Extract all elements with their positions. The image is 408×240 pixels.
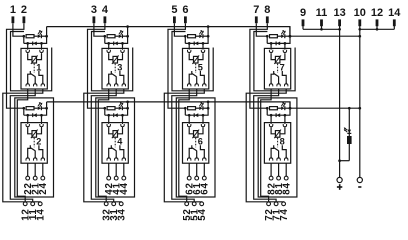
wire coil leads K4 [109,128,123,134]
relay K3 socket box [102,48,128,89]
wire K5 NO contact to terminal 54 [164,89,204,202]
LED indicator K1 [38,30,43,38]
LED indicator K4 [119,102,124,110]
resistor (K1 LED series) [26,35,34,38]
terminal circle 71 [274,202,278,206]
relay K7 socket box [264,48,290,89]
resistor (K5 LED series) [188,35,196,38]
channel K4 outline box [96,98,135,197]
svg-text:2: 2 [21,4,27,16]
junction minus rail top row [358,35,361,38]
channel K6 outline box [176,98,215,197]
junction coil A1 K3 [107,42,110,45]
wire K7 NO contact to terminal 74 [246,89,286,202]
junction coil A1 K8 [270,114,273,117]
svg-text:12: 12 [371,7,383,19]
relay K2 coil clamp A2 [41,123,43,124]
terminal circle 44 [122,176,126,180]
relay K4 coil [112,130,119,139]
relay K2 changeover contact [28,145,43,158]
resistor (K8 LED series) [270,107,278,110]
wire terminal 8 feed to K8 [250,23,267,108]
wire K1 NO contact to terminal 14 [3,89,43,202]
suppressor diode K4 [113,113,115,117]
terminal circle 24 [41,176,45,180]
junction coil A2 K8 [284,114,287,117]
junction node J8 [266,107,269,110]
relay K5 coil clamp A2 [202,48,204,49]
resistor (K6 LED series) [188,107,196,110]
wire R to LED [115,35,119,37]
terminal 11 [316,7,328,26]
terminal circle 74 [282,202,286,206]
relay K1 coil clamp A2 [41,48,43,49]
svg-text:34: 34 [117,208,128,220]
wire power indicator branch [348,108,350,161]
terminal 8 [264,4,270,23]
mechanical link K4 [114,138,116,147]
wire K3 NC contact to terminal 32 [98,89,108,202]
terminal circle 52 [185,202,189,206]
relay K4 contact clamps [107,157,126,161]
wire diode branch K6 [185,108,208,115]
junction coil A2 K1 [40,42,43,45]
wire coil leads K3 [109,54,123,60]
terminal circle 81 [277,176,281,180]
junction terminal 11 [320,28,323,31]
relay K4 changeover contact [109,145,124,158]
svg-text:11: 11 [316,7,328,19]
svg-text:14: 14 [388,7,401,19]
terminal circle 64 [202,176,206,180]
wire X5 riser to minus rail [207,27,209,37]
wire J6 down to diode branch [184,108,186,115]
wire terminal 2 feed to K2 [7,23,24,108]
wire K3 common contact to terminal 31 [91,89,116,202]
junction node J7 [266,35,269,38]
relay K7 coil [274,55,281,64]
node X7 [289,35,292,38]
junction coil A2 K4 [121,114,124,117]
mechanical link K6 [195,138,197,147]
relay K8 changeover contact [271,145,286,158]
wire K6 contacts to terminals [189,163,204,176]
suppressor diode K1 [32,42,34,46]
wire J8 down to diode branch [266,108,268,115]
wire K1 NC contact to terminal 12 [17,89,27,202]
wire terminal 5 to R input [174,23,185,36]
wire LED to node X5 [203,35,208,37]
wire terminal 10 stub [359,26,361,30]
plus test terminal [337,177,342,182]
relay K8 coil clamp A1 [270,123,272,124]
junction coil A2 K3 [121,42,124,45]
junction node J2 [22,107,25,110]
wire plus vertical to + test terminal [339,29,341,177]
junction node J1 [22,35,25,38]
wire R to LED [34,35,38,37]
wire LED to node X3 [122,35,127,37]
svg-text:6: 6 [182,4,188,16]
svg-text:9: 9 [300,7,306,19]
LED indicator K3 [119,30,124,38]
terminal circle 32 [104,202,108,206]
terminal circle 21 [33,176,37,180]
wire X6 riser to minus rail [207,102,209,108]
wire R to LED [34,107,38,109]
relay K4 coil clamp A2 [122,123,124,124]
wire terminal 1 to R input [13,23,24,36]
wire diode branch K4 [105,108,128,115]
wire J2 down to diode branch [23,108,25,115]
wire X3 riser to minus rail [127,27,129,37]
relay K3 contact clamps [107,82,126,86]
channel K5 outline [172,32,213,91]
rail junction X5 [207,25,210,28]
svg-text:24: 24 [38,182,49,194]
rail junction X6 [207,101,210,104]
relay K8 coil clamp A2 [284,123,286,124]
wire R to LED [196,107,200,109]
wire terminal 12 stub [376,26,378,30]
relay K8 socket box [264,123,290,164]
wire J7 down to diode branch [266,36,268,43]
wire K2 contacts to terminals [28,163,43,176]
svg-text:13: 13 [333,7,345,19]
resistor (power LED series) [348,137,351,144]
junction coil A2 K6 [202,114,205,117]
wire X1 riser to minus rail [46,27,48,37]
LED indicator K8 [281,102,286,110]
wire K1 common contact to terminal 11 [10,89,35,202]
wire branch to coil clamps K3 [109,43,123,48]
mechanical link K3 [114,64,116,73]
wire J5 down to diode branch [184,36,186,43]
resistor (K7 LED series) [270,35,278,38]
wire LED to node X6 [203,107,208,109]
relay K1 socket box [21,48,47,89]
node X3 [126,35,129,38]
mechanical link K5 [195,64,197,73]
junction minus rail bottom row [358,107,361,110]
wire branch to coil clamps K1 [28,43,42,48]
relay K6 contact clamps [188,157,207,161]
wire terminal 11 stub [321,26,323,30]
relay K6 coil clamp A2 [202,123,204,124]
wire branch to coil clamps K7 [271,43,285,48]
relay K3 coil clamp A2 [122,48,124,49]
suppressor diode K3 [113,42,115,46]
wire coil leads K2 [28,128,42,134]
junction coil A1 K1 [26,42,29,45]
relay K8 contact clamps [269,157,288,161]
wire LED to node X8 [285,107,290,109]
LED indicator K7 [281,30,286,38]
relay K3 coil [112,55,119,64]
suppressor diode K7 [275,42,277,46]
relay K1 changeover contact [28,71,43,84]
wire X4 riser to minus rail [127,102,129,108]
terminal circle 31 [112,202,116,206]
wire K5 NC contact to terminal 52 [179,89,189,202]
junction node J3 [103,35,106,38]
wire branch to coil clamps K4 [109,115,123,122]
wire diode branch K7 [267,36,290,43]
channel K8 outline box [258,98,297,197]
mechanical link K8 [277,138,279,147]
terminal circle 11 [31,202,35,206]
wire LED to node X4 [122,107,127,109]
wire X8 riser to minus rail [289,102,291,108]
junction terminal 13 [338,28,341,31]
svg-text:44: 44 [119,182,130,194]
terminal circle 42 [107,176,111,180]
terminal circle 41 [114,176,118,180]
wire coil leads K8 [271,128,285,134]
node X5 [207,35,210,38]
wire K7 NC contact to terminal 72 [261,89,271,202]
wire K7 common contact to terminal 71 [254,89,279,202]
junction coil A2 K2 [40,114,43,117]
relay K5 changeover contact [189,71,204,84]
rail junction X3 [126,25,129,28]
wire power branch to plus vertical [340,160,350,162]
LED indicator K5 [199,30,204,38]
junction power indicator return [338,159,341,162]
power LED indicator [344,127,352,133]
terminal 1 [10,4,16,23]
channel K2 outline box [15,98,54,197]
wire J1 down to diode branch [23,36,25,43]
wire coil leads K7 [271,54,285,60]
svg-text:14: 14 [36,208,47,220]
terminal circle 61 [195,176,199,180]
junction node J5 [184,35,187,38]
wire terminal 14 stub [393,26,395,30]
terminal circle 12 [23,202,27,206]
wire R to LED [115,107,119,109]
wire terminal 4 feed to K4 [88,23,105,108]
junction coil A1 K2 [26,114,29,117]
junction node J6 [184,107,187,110]
wire J4 down to diode branch [104,108,106,115]
svg-text:64: 64 [200,182,211,194]
relay K5 socket box [183,48,209,89]
node X6 [207,107,210,110]
wire branch to coil clamps K6 [189,115,203,122]
wire LED to node X2 [41,107,46,109]
suppressor diode K8 [275,113,277,117]
relay K1 contact clamps [26,82,45,86]
node X2 [45,107,48,110]
wire branch to coil clamps K8 [271,115,285,122]
wire terminal 13 stub [339,26,341,30]
terminal circle 62 [187,176,191,180]
terminal circle 82 [269,176,273,180]
terminal circle 84 [284,176,288,180]
relay K2 socket box [21,123,47,164]
wire J3 down to diode branch [104,36,106,43]
relay K1 coil [31,55,38,64]
rail junction X4 [126,101,129,104]
wire coil leads K6 [189,128,203,134]
LED indicator K2 [38,102,43,110]
wire diode branch K3 [105,36,128,43]
wire coil leads K1 [28,54,42,60]
suppressor diode K5 [193,42,195,46]
node X1 [45,35,48,38]
minus test terminal [357,177,362,182]
wire diode branch K2 [24,108,47,115]
wire terminal 6 feed to K6 [168,23,185,108]
terminal 10 [354,7,366,26]
channel K1 outline [11,32,52,91]
terminal circle 34 [119,202,123,206]
relay K6 socket box [183,123,209,164]
relay K7 coil clamp A2 [284,48,286,49]
svg-text:84: 84 [282,182,293,194]
wire diode branch K5 [185,36,208,43]
wire LED to node X1 [41,35,46,37]
svg-text:3: 3 [91,4,97,16]
terminal 14 [388,7,401,26]
terminal 12 [371,7,383,26]
junction coil A1 K7 [270,42,273,45]
relay K3 coil clamp A1 [108,48,110,49]
terminal 2 [21,4,27,23]
relay K5 contact clamps [188,82,207,86]
relay K7 changeover contact [271,71,286,84]
junction coil A2 K5 [202,42,205,45]
relay K8 coil [274,130,281,139]
resistor (K3 LED series) [107,35,115,38]
terminal 13 [333,7,345,26]
wire X7 riser to minus rail [289,27,291,37]
terminal 4 [102,4,109,23]
wire terminal 3 to R input [94,23,105,36]
terminal 6 [182,4,188,23]
suppressor diode K2 [32,113,34,117]
node X4 [126,107,129,110]
junction coil A1 K5 [188,42,191,45]
wire K8 contacts to terminals [271,163,286,176]
svg-text:1: 1 [10,4,16,16]
svg-text:4: 4 [102,4,109,16]
wire coil leads K5 [189,54,203,60]
label + [337,184,342,190]
wire R to LED [196,35,200,37]
minus rail extension (top row) to supply [290,35,360,37]
wire terminal 9 stub [302,26,304,30]
relay K2 contact clamps [26,157,45,161]
relay K2 coil [31,130,38,139]
resistor (K2 LED series) [26,107,34,110]
relay K4 socket box [102,123,128,164]
wire diode branch K1 [24,36,47,43]
terminal circle 22 [26,176,30,180]
wire X2 riser to minus rail [46,102,48,108]
relay K6 coil [192,130,199,139]
svg-text:10: 10 [354,7,366,19]
relay K2 coil clamp A1 [27,123,29,124]
LED indicator K6 [199,102,204,110]
terminal circle 72 [267,202,271,206]
wire K5 common contact to terminal 51 [172,89,197,202]
junction power indicator branch [348,107,351,110]
mechanical link K2 [33,138,35,147]
terminal 7 [253,4,259,23]
svg-text:54: 54 [197,208,208,220]
minus rail (bottom relay row) [47,102,290,108]
wire plus bus terminals 9-11-13 [303,28,340,30]
node X7 [289,35,292,38]
svg-text:8: 8 [264,4,270,16]
channel K3 outline [92,32,133,91]
relay K3 changeover contact [109,71,124,84]
minus rail (top relay row) [47,27,290,37]
mechanical link K1 [33,64,35,73]
junction coil A2 K7 [284,42,287,45]
wire LED to node X7 [285,35,290,37]
junction coil A1 K6 [188,114,191,117]
mechanical link K7 [277,64,279,73]
relay K1 coil clamp A1 [27,48,29,49]
label - [358,186,361,188]
resistor (K4 LED series) [107,107,115,110]
terminal circle 14 [38,202,42,206]
minus rail extension (bottom row) to supply [290,107,360,109]
wire terminal 7 to R input [256,23,267,36]
node X8 [289,107,292,110]
wire R to LED [277,107,281,109]
wire K4 contacts to terminals [109,163,124,176]
wire branch to coil clamps K5 [189,43,203,48]
wire branch to coil clamps K2 [28,115,42,122]
terminal 3 [91,4,97,23]
relay K6 coil clamp A1 [188,123,190,124]
wire K3 NO contact to terminal 34 [84,89,124,202]
junction terminal 10 [358,28,361,31]
relay K5 coil [192,55,199,64]
terminal circle 51 [192,202,196,206]
relay K7 coil clamp A1 [270,48,272,49]
relay K6 changeover contact [189,145,204,158]
relay K5 coil clamp A1 [188,48,190,49]
terminal circle 54 [200,202,204,206]
terminal 5 [171,4,177,23]
wire minus bus terminals 10-12-14 [360,28,395,30]
suppressor diode K6 [193,113,195,117]
wire R to LED [277,35,281,37]
junction node J4 [103,107,106,110]
junction terminal 12 [376,28,379,31]
svg-text:7: 7 [253,4,259,16]
svg-text:74: 74 [279,208,290,220]
junction coil A1 K4 [107,114,110,117]
svg-text:5: 5 [171,4,177,16]
relay K7 contact clamps [269,82,288,86]
wire diode branch K8 [267,108,290,115]
channel K7 outline [254,32,295,91]
relay K4 coil clamp A1 [108,123,110,124]
terminal 9 [300,7,306,26]
node X8 [289,107,292,110]
wire minus vertical to - test terminal [359,29,361,177]
